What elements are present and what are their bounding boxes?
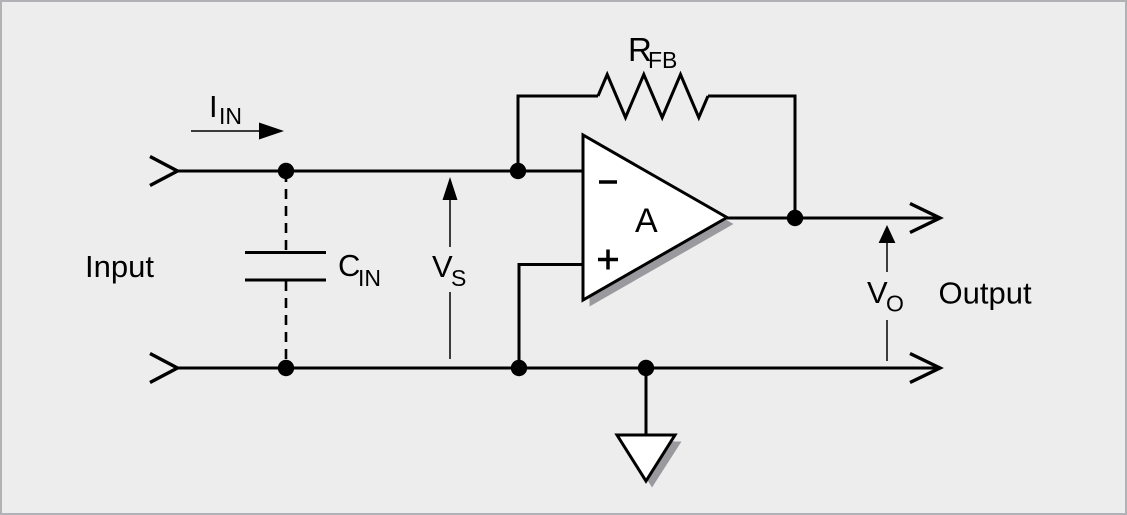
svg-text:O: O <box>886 291 904 317</box>
op-amp minus sign <box>599 180 617 184</box>
svg-text:A: A <box>635 202 658 240</box>
node: output / feedback junction <box>787 210 803 226</box>
svg-text:S: S <box>451 265 466 291</box>
node: top wire / capacitor junction <box>278 163 294 179</box>
node: bottom wire / non-inverting junction <box>511 360 527 376</box>
capacitor C1 dashed lead top <box>285 172 288 252</box>
wire: bottom input line <box>177 367 939 370</box>
op-amp U1 shadow <box>590 142 734 307</box>
input arrowhead top (open) <box>150 157 178 186</box>
voltage arrow V_S <box>443 177 458 200</box>
node: bottom wire / capacitor junction <box>278 360 294 376</box>
voltage arrow V_O <box>879 225 896 243</box>
capacitor C1 dashed lead bottom <box>285 281 288 367</box>
node: top wire / feedback junction <box>510 163 526 179</box>
svg-text:I: I <box>209 89 218 124</box>
svg-text:V: V <box>432 249 453 284</box>
output arrowhead bottom wire (open) <box>910 354 940 383</box>
resistor R_FB zigzag <box>598 75 708 118</box>
input arrowhead bottom (open) <box>150 354 178 383</box>
wire: output line <box>727 217 939 220</box>
svg-text:FB: FB <box>648 47 677 73</box>
feedback branch wire <box>518 96 598 171</box>
svg-text:IN: IN <box>358 265 381 291</box>
op-amp U1 body <box>583 135 727 300</box>
node: bottom wire / ground junction <box>638 360 654 376</box>
ground symbol <box>617 435 675 481</box>
svg-text:IN: IN <box>219 103 242 129</box>
feedback wire right and down <box>708 96 795 218</box>
output arrowhead (open) <box>910 204 940 233</box>
svg-text:V: V <box>867 275 888 310</box>
ground shadow <box>624 442 682 488</box>
svg-text:Input: Input <box>85 249 154 284</box>
capacitor C1 plates <box>245 251 326 254</box>
op-amp plus sign <box>598 258 618 262</box>
wire: non-inverting input <box>519 265 583 369</box>
ground stem wire <box>645 368 648 436</box>
wire: top input line <box>177 170 583 173</box>
current arrow I_IN <box>191 130 263 132</box>
svg-text:Output: Output <box>939 276 1032 311</box>
